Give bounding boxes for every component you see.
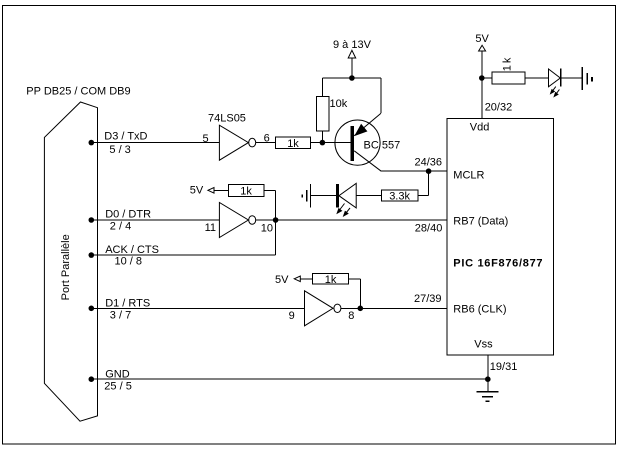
Q1 emitter line — [354, 113, 381, 136]
LED D2 cathode bar — [336, 184, 339, 208]
wire U1C bubble to node — [341, 307, 360, 309]
svg-text:D1 / RTS: D1 / RTS — [105, 297, 150, 309]
wire D0 to inverter U1B input — [91, 219, 219, 221]
node RB7 — [273, 217, 279, 223]
ground bar 2 — [586, 73, 588, 85]
svg-text:24/36: 24/36 — [415, 157, 443, 169]
svg-text:RB6 (CLK): RB6 (CLK) — [453, 303, 506, 315]
wire R4 riser down — [359, 279, 361, 309]
wire arrow to R3 — [214, 189, 228, 191]
svg-text:5V: 5V — [190, 184, 204, 196]
svg-text:Vdd: Vdd — [470, 122, 490, 134]
node GND/Vss — [485, 376, 491, 382]
LED D1 cathode bar — [560, 69, 562, 87]
wire ACK/CTS horizontal — [91, 254, 275, 256]
LED D2 triangle — [339, 183, 356, 208]
node base — [320, 140, 326, 146]
resistor R4 1k — [313, 274, 349, 284]
svg-text:74LS05: 74LS05 — [208, 113, 246, 125]
svg-text:8: 8 — [348, 310, 354, 322]
resistor R6 1k — [492, 72, 525, 84]
svg-text:MCLR: MCLR — [453, 170, 484, 182]
Q1 base bar — [351, 126, 355, 161]
svg-text:9 à 13V: 9 à 13V — [333, 39, 372, 51]
node RB6 — [358, 306, 364, 312]
U1B output bubble — [249, 216, 256, 225]
node Vpp rail — [349, 75, 355, 81]
svg-text:Port Parallèle: Port Parallèle — [60, 234, 72, 300]
svg-text:20/32: 20/32 — [485, 101, 513, 113]
svg-text:D0 / DTR: D0 / DTR — [105, 208, 151, 220]
node pin GND — [89, 376, 95, 382]
5V arrow row2 — [208, 188, 214, 194]
resistor R2 10k vertical — [317, 96, 330, 131]
ground sideways right (tall bar) — [581, 67, 583, 90]
resistor R3 1k — [228, 184, 264, 196]
svg-text:BC 557: BC 557 — [364, 139, 401, 151]
wire R3 riser down — [275, 190, 277, 220]
svg-text:Vss: Vss — [474, 339, 493, 351]
svg-text:19/31: 19/31 — [490, 361, 518, 373]
svg-text:D3 / TxD: D3 / TxD — [104, 131, 147, 143]
LED D1 light arrow 1 — [551, 87, 556, 94]
svg-text:10: 10 — [261, 222, 273, 234]
node pin D0 — [89, 217, 95, 223]
node pin D1 — [89, 306, 95, 312]
wire D3 to inverter U1A input — [91, 142, 219, 144]
ground bar 3 — [301, 195, 303, 198]
op-amp U1B inverter triangle — [219, 203, 248, 238]
ground bar 3 — [486, 400, 490, 402]
node 5V — [479, 75, 485, 81]
wire R5 to LED D2 — [356, 195, 381, 197]
svg-text:25 / 5: 25 / 5 — [104, 381, 132, 393]
wire GND rail — [91, 378, 488, 380]
ground bar 3 — [591, 77, 593, 81]
wire U1B bubble to node — [256, 219, 276, 221]
LED D1 light arrow 2 — [554, 90, 559, 97]
wire Vpp rail horizontal — [322, 77, 381, 79]
svg-text:9: 9 — [289, 310, 295, 322]
ground bar 2 — [482, 396, 493, 398]
U1A output bubble — [249, 138, 256, 147]
wire rail to emitter — [380, 78, 382, 113]
svg-text:3 / 7: 3 / 7 — [110, 310, 131, 322]
ground sideways left (tall bar) — [310, 184, 312, 208]
svg-text:27/39: 27/39 — [414, 293, 442, 305]
svg-text:2 / 4: 2 / 4 — [110, 221, 131, 233]
transistor Q1 BC557 circle — [335, 120, 380, 165]
svg-text:ACK / CTS: ACK / CTS — [105, 244, 159, 256]
wire LED D2 to ground — [311, 195, 336, 197]
svg-text:5: 5 — [203, 133, 209, 145]
svg-text:RB7 (Data): RB7 (Data) — [453, 216, 508, 228]
5V arrow top right — [479, 45, 486, 51]
svg-text:5 / 3: 5 / 3 — [109, 144, 130, 156]
svg-text:1k: 1k — [325, 274, 337, 286]
wire R2 bottom to base node — [321, 131, 323, 142]
wire U1A bubble to R1 — [256, 142, 276, 144]
wire 5V down to Vdd — [481, 51, 483, 119]
svg-text:1k: 1k — [287, 138, 299, 150]
svg-text:GND: GND — [105, 368, 130, 380]
wire D1 to inverter U1C input — [91, 307, 304, 309]
wire R3 to riser — [264, 189, 276, 191]
wire MCLR node down — [428, 171, 430, 196]
Q1 emitter arrow — [355, 125, 366, 136]
wire arrow to R4 — [300, 278, 312, 280]
wire RB6 to PIC — [360, 307, 447, 309]
wire rail to R2 top — [321, 78, 323, 96]
node MCLR branch — [426, 168, 432, 174]
svg-text:PP DB25 / COM DB9: PP DB25 / COM DB9 — [26, 86, 130, 98]
resistor R5 3.3k — [382, 190, 418, 201]
resistor R1 1k — [276, 137, 311, 149]
wire R1 to base node — [311, 142, 351, 144]
svg-text:5V: 5V — [275, 274, 289, 286]
Q1 collector line — [354, 151, 381, 171]
wire LED D1 to ground — [561, 77, 583, 79]
Vpp supply arrow — [348, 50, 356, 58]
wire Vpp arrow down — [351, 58, 353, 78]
svg-text:10k: 10k — [330, 98, 348, 110]
PIC U2 box — [447, 119, 553, 355]
5V arrow row3 — [294, 276, 300, 282]
node pin D3 — [89, 140, 95, 146]
U1C output bubble — [334, 304, 341, 312]
svg-text:10 / 8: 10 / 8 — [115, 256, 143, 268]
op-amp U1C inverter triangle — [305, 291, 334, 326]
svg-text:PIC 16F876/877: PIC 16F876/877 — [453, 258, 543, 270]
LED D2 light arrow 1 — [337, 204, 344, 214]
svg-text:11: 11 — [205, 222, 216, 234]
wire RB7 to PIC — [276, 219, 447, 221]
LED D2 light arrow 2 — [344, 208, 350, 216]
ground bar 2 — [306, 190, 308, 202]
op-amp U1A inverter triangle — [219, 125, 248, 160]
svg-text:28/40: 28/40 — [415, 223, 443, 235]
node pin ACK — [89, 252, 95, 258]
svg-text:1k: 1k — [502, 56, 514, 72]
wire node to R6 — [482, 77, 492, 79]
wire Vss down — [487, 355, 489, 391]
wire R6 to LED D1 — [525, 77, 548, 79]
wire ACK/CTS riser — [275, 220, 277, 255]
ground symbol bottom bar 1 — [476, 391, 498, 393]
svg-text:5V: 5V — [475, 33, 489, 45]
connector J1 DB25/DB9 body — [44, 102, 97, 421]
wire collector to MCLR — [381, 170, 447, 172]
svg-text:1k: 1k — [240, 185, 252, 197]
LED D1 triangle — [549, 69, 561, 87]
wire to R5 right — [418, 195, 429, 197]
wire R4 to riser — [349, 278, 361, 280]
svg-text:3.3k: 3.3k — [389, 191, 410, 203]
